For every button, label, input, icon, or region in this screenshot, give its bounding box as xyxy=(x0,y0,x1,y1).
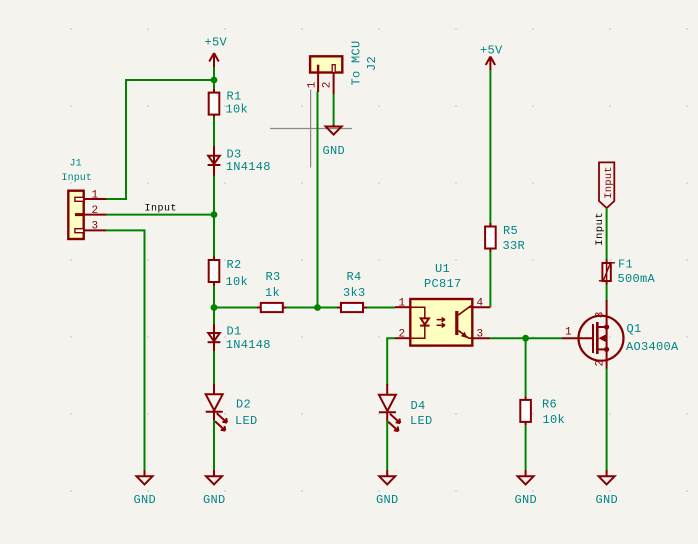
resistor R6 xyxy=(520,396,565,427)
wire D2 to GND xyxy=(213,420,215,471)
junction at +5V / J1 branch xyxy=(211,77,218,84)
wire D3 to R2 with Input tap xyxy=(213,176,215,257)
wire hier label to F1 xyxy=(606,208,608,260)
mosfet Q1 xyxy=(562,300,679,369)
resistor R3 xyxy=(257,270,287,312)
LED D4 xyxy=(379,384,433,431)
ground for J2 xyxy=(323,125,346,159)
svg-text:PC817: PC817 xyxy=(424,277,462,291)
diode D1 1N4148 xyxy=(208,323,271,352)
svg-text:4: 4 xyxy=(477,298,484,310)
polyfuse F1 xyxy=(599,258,656,287)
svg-text:GND: GND xyxy=(323,144,346,158)
svg-text:AO3400A: AO3400A xyxy=(626,340,679,354)
svg-text:GND: GND xyxy=(376,493,399,507)
LED D2 xyxy=(206,384,258,431)
power +5V left xyxy=(205,36,228,68)
svg-text:U1: U1 xyxy=(435,262,450,276)
resistor R4 xyxy=(337,270,367,312)
svg-text:2: 2 xyxy=(92,205,99,217)
svg-text:1N4148: 1N4148 xyxy=(226,338,271,352)
wire top horizontal to J1 pin1 riser xyxy=(106,80,214,199)
junction mid (J2 pin1 riser) xyxy=(314,304,321,311)
svg-text:1: 1 xyxy=(92,190,99,202)
resistor R2 xyxy=(209,257,248,290)
junction at Input net xyxy=(211,211,218,218)
ground D2 xyxy=(203,470,226,507)
svg-text:R6: R6 xyxy=(542,398,557,412)
svg-text:F1: F1 xyxy=(618,258,633,272)
wire +5V right to R5 xyxy=(489,70,491,227)
svg-text:3k3: 3k3 xyxy=(343,286,366,300)
wire J1 pin3 to GND xyxy=(106,230,145,470)
wire J1 pin2 to junction xyxy=(106,214,214,216)
svg-text:2: 2 xyxy=(399,329,406,341)
wire R3 to mid junction xyxy=(287,307,318,309)
svg-text:D4: D4 xyxy=(411,399,426,413)
svg-text:J1: J1 xyxy=(70,158,82,169)
svg-text:GND: GND xyxy=(203,493,226,507)
ground far left xyxy=(134,470,157,507)
graphic lines xyxy=(270,90,352,168)
svg-text:J2: J2 xyxy=(365,56,379,71)
svg-text:1: 1 xyxy=(565,327,572,339)
wire U1 pin3 to Q1 gate xyxy=(490,337,562,339)
svg-text:10k: 10k xyxy=(226,275,249,289)
resistor R1 xyxy=(209,89,248,118)
svg-text:10k: 10k xyxy=(226,103,249,117)
wire R6 to GND xyxy=(525,425,527,470)
wire D4 to GND xyxy=(386,421,388,471)
wire R2 to row junction xyxy=(213,286,215,308)
ground D4 xyxy=(376,470,399,507)
svg-text:To MCU: To MCU xyxy=(350,40,364,85)
svg-text:LED: LED xyxy=(410,414,433,428)
wire U1 pin2 to D4 xyxy=(387,338,395,385)
svg-text:+5V: +5V xyxy=(205,36,228,50)
wire +5V left stem xyxy=(213,67,215,93)
svg-text:D1: D1 xyxy=(227,325,242,339)
optocoupler U1 xyxy=(395,262,490,346)
svg-text:Input: Input xyxy=(145,204,178,215)
svg-text:33R: 33R xyxy=(503,239,526,253)
svg-text:GND: GND xyxy=(515,493,538,507)
svg-text:Input: Input xyxy=(603,166,615,199)
connector J1 xyxy=(62,158,107,239)
svg-text:1: 1 xyxy=(399,298,406,310)
wire junction to R3 xyxy=(214,307,261,309)
svg-text:R3: R3 xyxy=(266,270,281,284)
wire R1 to D3 xyxy=(213,117,215,147)
svg-text:1: 1 xyxy=(307,81,319,88)
connector J2 xyxy=(307,40,379,94)
svg-text:3: 3 xyxy=(477,329,484,341)
svg-text:Input: Input xyxy=(62,173,93,184)
svg-text:D2: D2 xyxy=(236,398,251,412)
svg-text:2: 2 xyxy=(595,360,607,367)
wire junction to D1 xyxy=(213,308,215,325)
svg-text:1N4148: 1N4148 xyxy=(226,160,271,174)
svg-text:3: 3 xyxy=(92,221,99,233)
wire J2 pin2 to GND xyxy=(333,94,335,124)
svg-text:Input: Input xyxy=(594,212,606,246)
wire riser to J2 pin1 xyxy=(317,92,319,308)
svg-text:2: 2 xyxy=(322,82,334,89)
resistor R5 xyxy=(485,223,525,253)
wire F1 to Q1 drain xyxy=(606,285,608,302)
svg-text:+5V: +5V xyxy=(480,44,503,58)
wire R4 to U1 pin1 xyxy=(367,307,395,309)
svg-text:R1: R1 xyxy=(227,90,242,104)
junction R2/R3/D1 xyxy=(211,304,218,311)
svg-text:3: 3 xyxy=(595,312,607,319)
svg-text:R2: R2 xyxy=(227,258,242,272)
ground Q1 xyxy=(596,470,619,507)
wire mid junction to R4 xyxy=(318,307,342,309)
wire R5 to U1 pin4 xyxy=(489,252,491,307)
wire D1 to D2 xyxy=(213,351,215,385)
svg-text:R5: R5 xyxy=(503,224,518,238)
wire Q1 source to GND xyxy=(606,369,608,471)
svg-text:R4: R4 xyxy=(347,270,362,284)
ground R6 xyxy=(515,470,538,507)
diode D3 1N4148 xyxy=(208,146,271,176)
wire junction to R6 xyxy=(525,338,527,396)
svg-text:1k: 1k xyxy=(265,286,280,300)
svg-text:500mA: 500mA xyxy=(618,272,656,286)
svg-text:GND: GND xyxy=(596,493,619,507)
svg-text:GND: GND xyxy=(134,493,157,507)
svg-text:10k: 10k xyxy=(543,413,566,427)
hierarchical label Input xyxy=(599,162,615,208)
svg-text:Q1: Q1 xyxy=(627,322,642,336)
svg-text:LED: LED xyxy=(235,414,258,428)
junction pin3/R6 xyxy=(522,335,529,342)
power +5V right xyxy=(480,44,503,71)
